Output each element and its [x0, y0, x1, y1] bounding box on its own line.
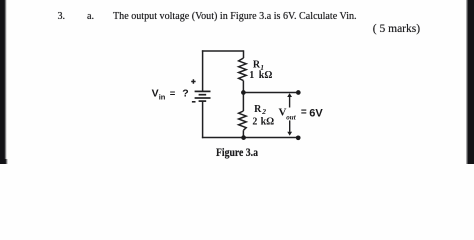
svg-text:kΩ: kΩ [261, 116, 275, 127]
figure caption [216, 145, 258, 160]
svg-text:2: 2 [261, 107, 266, 116]
label R1 designator [253, 60, 264, 72]
svg-text:2: 2 [252, 116, 257, 127]
label R2 value 2 kOhm [252, 116, 274, 127]
svg-text:?: ? [182, 88, 188, 100]
node Vout- terminal dot [296, 135, 301, 140]
label Vout = 6V [279, 106, 324, 121]
node Vout+ terminal dot [296, 90, 301, 95]
wire bottom (battery - across to Vout - node) [202, 137, 298, 139]
wire R1 bottom lead to node A [242, 81, 244, 93]
wire R2 top lead [242, 93, 244, 112]
node B junction dot (R2 bottom) [241, 135, 246, 140]
arrow Vout polarity down [287, 120, 292, 135]
battery plus sign [191, 79, 195, 83]
node A junction dot (R1-R2 junction) [241, 90, 246, 95]
svg-text:kΩ: kΩ [259, 70, 273, 81]
wire top (battery + up and across to R1) [202, 50, 244, 52]
question text [113, 11, 357, 22]
svg-text:V: V [152, 88, 159, 100]
arrow Vout polarity up [287, 93, 292, 107]
svg-text:6V: 6V [309, 107, 323, 119]
part label a. [87, 11, 94, 22]
wire R2 bottom lead [242, 130, 244, 137]
label R1 value 1 kOhm [249, 70, 272, 81]
label Vin = ? [152, 88, 189, 102]
scan border right bar [466, 0, 474, 164]
wire left upper (top wire down to battery + plate) [202, 50, 204, 91]
resistor R2 [239, 111, 247, 130]
wire R1 top lead [243, 50, 245, 58]
label R2 designator [254, 104, 266, 116]
battery V1 Vin [195, 91, 211, 101]
marks label [373, 23, 420, 35]
svg-text:=: = [301, 107, 307, 118]
svg-text:V: V [279, 106, 287, 118]
wire middle (node A across to Vout + node) [243, 92, 298, 94]
svg-text:in: in [159, 92, 166, 101]
resistor R1 [239, 58, 247, 81]
scan border left bar [0, 0, 7, 164]
scan border left bottom wedge [0, 159, 8, 164]
question number 3. [58, 11, 66, 22]
svg-text:1: 1 [249, 70, 254, 81]
svg-text:out: out [286, 114, 296, 122]
svg-text:=: = [170, 88, 176, 99]
wire left lower (battery - plate down to bottom wire) [202, 101, 204, 138]
battery minus sign [192, 101, 196, 103]
svg-text:R: R [254, 104, 262, 115]
circuit schematic svg [0, 0, 474, 164]
